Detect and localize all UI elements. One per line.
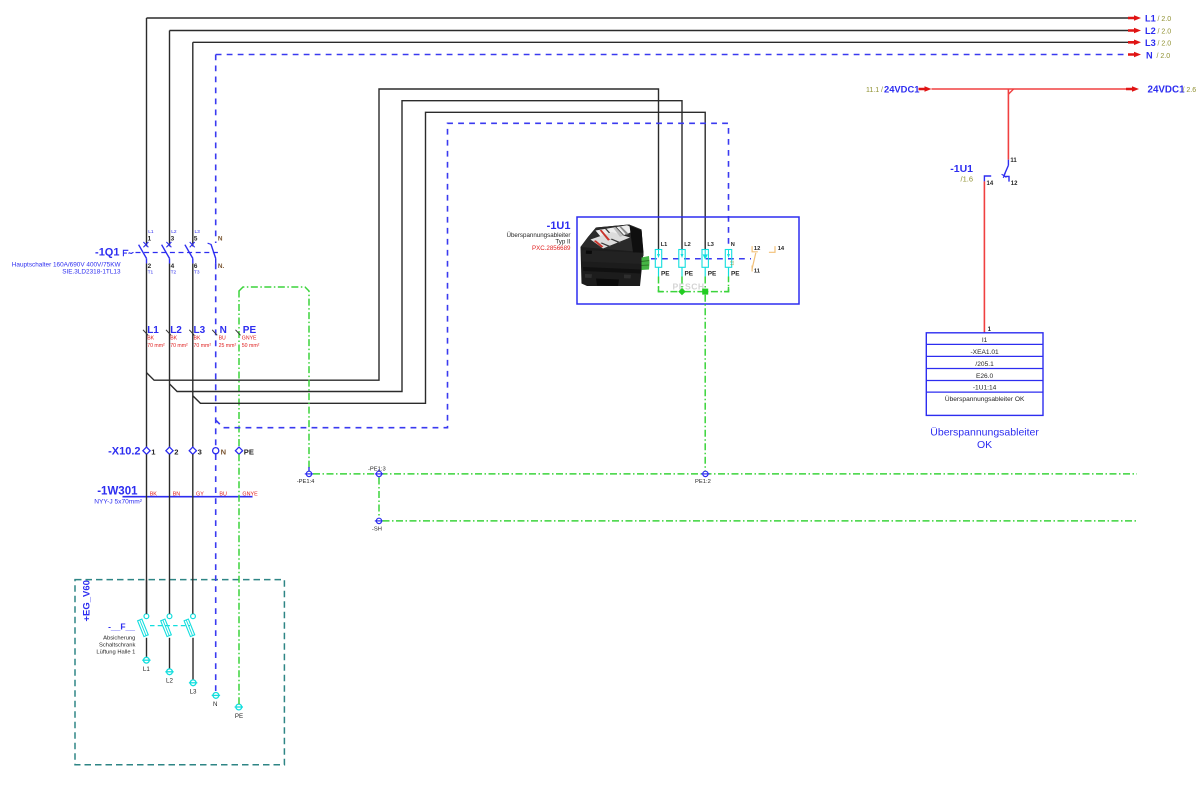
arrow L3 to page 2.0 bbox=[1128, 40, 1141, 46]
wire PE branch to PE1:4 dash-dot bbox=[239, 287, 309, 471]
svg-text:-X10.2: -X10.2 bbox=[108, 446, 140, 458]
svg-text:OK: OK bbox=[977, 439, 992, 451]
enclosure EG_V60 dashed frame bbox=[75, 580, 284, 765]
terminal circle PE bbox=[235, 704, 244, 720]
wire branch L1 to surge protector bbox=[147, 89, 659, 380]
wire N vertical below Q1 to terminal dashed bbox=[215, 263, 217, 447]
wire red down to contact 1U1:11 bbox=[1007, 89, 1009, 160]
wire N vertical upper dashed bbox=[215, 55, 217, 244]
terminal circle N bbox=[212, 693, 220, 709]
svg-text:/ 2.0: / 2.0 bbox=[1157, 53, 1171, 60]
svg-text:24VDC1: 24VDC1 bbox=[884, 83, 919, 94]
svg-text:GNYE: GNYE bbox=[242, 491, 258, 497]
junction chamfer 24VDC1 bbox=[1008, 89, 1013, 94]
svg-text:4: 4 bbox=[171, 263, 175, 270]
fuse F pole 1 bbox=[138, 614, 149, 637]
PE junction square bbox=[702, 289, 708, 295]
svg-text:L3: L3 bbox=[190, 689, 197, 696]
svg-text:BK: BK bbox=[150, 491, 158, 497]
wire red contact 14 down to PLC input bbox=[983, 181, 985, 332]
svg-text:GY: GY bbox=[196, 491, 204, 497]
arrester N bbox=[725, 242, 740, 278]
svg-text:24VDC1: 24VDC1 bbox=[1148, 85, 1186, 96]
svg-text:L1: L1 bbox=[661, 242, 668, 248]
wire L3 fuse to terminal bbox=[192, 638, 194, 680]
svg-text:6: 6 bbox=[194, 263, 198, 270]
wire L1 inside enclosure upper bbox=[146, 580, 148, 614]
earth terminal PE1:4 bbox=[297, 467, 315, 485]
svg-text:PE: PE bbox=[243, 325, 257, 336]
wire PE from surge box down to PE1:2 bbox=[704, 295, 706, 471]
wire L1 top bus horizontal bbox=[147, 17, 1129, 19]
wire PE1:3 to SH dash-dot bbox=[378, 478, 380, 518]
svg-text:BK: BK bbox=[194, 336, 201, 342]
svg-text:PE1:2: PE1:2 bbox=[695, 479, 711, 485]
wire branch L2 to surge protector bbox=[170, 101, 683, 392]
svg-text:T3: T3 bbox=[194, 270, 200, 276]
svg-text:PE: PE bbox=[731, 271, 740, 278]
svg-text:L2: L2 bbox=[171, 229, 177, 235]
wire L3 vertical upper bbox=[192, 42, 194, 246]
arrester L2 bbox=[679, 242, 694, 278]
svg-text:2: 2 bbox=[148, 263, 152, 270]
surge protector product photo bbox=[581, 225, 650, 287]
svg-text:70 mm²: 70 mm² bbox=[147, 343, 165, 349]
fuse F pole 2 bbox=[161, 614, 172, 637]
terminal X10.2:PE bbox=[235, 447, 242, 454]
arrow N to page 2.0 bbox=[1128, 52, 1141, 58]
svg-text:I1: I1 bbox=[982, 337, 988, 344]
main PE bus dash-dot bbox=[313, 473, 1137, 475]
arrester L3 bbox=[702, 242, 717, 278]
svg-text:T1: T1 bbox=[148, 270, 154, 276]
arrow L2 to page 2.0 bbox=[1128, 28, 1141, 34]
svg-text:N: N bbox=[220, 325, 227, 336]
terminal circle L3 bbox=[189, 680, 197, 696]
PE junction diamond bbox=[678, 288, 685, 295]
surge protector 1U1 box bbox=[577, 217, 799, 304]
svg-text:12: 12 bbox=[730, 260, 735, 265]
switch Q1 pole N contact bbox=[208, 243, 216, 263]
switch Q1 pole 1 contact bbox=[139, 242, 149, 263]
svg-text:N: N bbox=[221, 447, 226, 456]
wire L2 vertical below Q1 to terminal bbox=[169, 263, 171, 447]
svg-text:BU: BU bbox=[219, 336, 226, 342]
svg-text:-__F__: -__F__ bbox=[108, 622, 135, 632]
svg-text:E26.0: E26.0 bbox=[976, 373, 994, 380]
switch Q1 pole 2 contact bbox=[162, 242, 172, 263]
blue dashed link through arresters bbox=[651, 258, 751, 260]
svg-text:Lüftung Halle 1: Lüftung Halle 1 bbox=[96, 649, 135, 655]
PE bus corner left bbox=[659, 287, 664, 292]
wire N top bus horizontal dashed bbox=[216, 54, 1125, 56]
wire branch N to surge protector dashed bbox=[216, 123, 729, 427]
svg-text:-1U1: -1U1 bbox=[547, 220, 571, 232]
wire L2 vertical upper bbox=[169, 31, 171, 247]
terminal circle L1 bbox=[142, 657, 150, 673]
svg-text:BN: BN bbox=[173, 491, 181, 497]
svg-text:GNYE: GNYE bbox=[242, 336, 257, 342]
svg-text:PE: PE bbox=[661, 271, 670, 278]
svg-text:-PE1:3: -PE1:3 bbox=[368, 466, 386, 472]
svg-text:PXC.2856689: PXC.2856689 bbox=[532, 245, 571, 252]
wire L3 top bus horizontal bbox=[193, 41, 1128, 43]
svg-text:2: 2 bbox=[174, 447, 178, 456]
svg-text:-1W301: -1W301 bbox=[97, 485, 138, 497]
PE drop L3 bbox=[704, 277, 706, 292]
wire L2 fuse to terminal bbox=[169, 638, 171, 669]
svg-text:11: 11 bbox=[1010, 158, 1017, 164]
wire L2 top bus horizontal bbox=[170, 30, 1129, 32]
svg-text:L2: L2 bbox=[170, 325, 182, 336]
svg-text:/ 2.0: / 2.0 bbox=[1158, 29, 1172, 36]
svg-text:70 mm²: 70 mm² bbox=[194, 343, 212, 349]
svg-text:Absicherung: Absicherung bbox=[103, 635, 135, 641]
wire 24VDC1 horizontal red bbox=[932, 88, 1127, 90]
svg-text:PESCH: PESCH bbox=[673, 282, 705, 292]
wire PE vertical dash-dot bbox=[238, 291, 240, 448]
svg-text:14: 14 bbox=[778, 246, 785, 252]
svg-text:11: 11 bbox=[754, 269, 761, 275]
arrow 24VDC1 to page 2.6 bbox=[1126, 86, 1139, 92]
fuse link dashed cyan bbox=[150, 625, 190, 627]
earth terminal PE1:2 bbox=[695, 471, 711, 485]
earth terminal PE1:3 bbox=[368, 466, 386, 478]
terminal X10.2:1 bbox=[143, 447, 150, 454]
svg-text:3: 3 bbox=[198, 447, 202, 456]
svg-text:L1: L1 bbox=[143, 666, 150, 673]
svg-text:-SH: -SH bbox=[372, 527, 382, 533]
svg-text:PE: PE bbox=[708, 271, 717, 278]
PE bus inside surge box dash-dot bbox=[659, 277, 729, 292]
svg-text:L1: L1 bbox=[1145, 13, 1156, 23]
svg-text:L1: L1 bbox=[147, 325, 159, 336]
svg-text:Überspannungsableiter: Überspannungsableiter bbox=[930, 427, 1039, 439]
second PE bus dash-dot bbox=[383, 520, 1138, 522]
svg-text:14: 14 bbox=[987, 181, 994, 187]
svg-text:N: N bbox=[1146, 50, 1153, 60]
svg-text:50 mm²: 50 mm² bbox=[242, 343, 260, 349]
wire label tick PE bbox=[236, 330, 241, 336]
switch Q1 mechanical link dashed bbox=[136, 252, 222, 254]
svg-text:12: 12 bbox=[754, 246, 760, 252]
svg-text:L2: L2 bbox=[166, 678, 173, 685]
svg-text:PE: PE bbox=[244, 447, 254, 456]
svg-text:/205.1: /205.1 bbox=[975, 361, 994, 368]
svg-text:25 mm²: 25 mm² bbox=[219, 343, 237, 349]
switch Q1 actuator handle bbox=[123, 250, 128, 256]
arrow 24VDC1 from 11.1 bbox=[919, 86, 932, 92]
svg-text:/1.6: /1.6 bbox=[960, 174, 973, 183]
svg-text:-XEA1.01: -XEA1.01 bbox=[970, 349, 999, 356]
svg-text:Schaltschrank: Schaltschrank bbox=[99, 642, 136, 648]
svg-text:3: 3 bbox=[171, 235, 175, 242]
svg-text:Überspannungsableiter OK: Überspannungsableiter OK bbox=[945, 395, 1025, 403]
wire label tick L1 bbox=[143, 330, 148, 336]
svg-text:-PE1:4: -PE1:4 bbox=[297, 479, 315, 485]
terminal X10.2:3 bbox=[189, 447, 196, 454]
svg-text:-1U1: -1U1 bbox=[950, 163, 973, 175]
contact 1U1 changeover symbol bbox=[1007, 160, 1009, 166]
svg-text:L3: L3 bbox=[195, 229, 201, 235]
svg-text:N.: N. bbox=[218, 263, 225, 270]
svg-text:/ 2.0: / 2.0 bbox=[1158, 41, 1172, 48]
wire L3 vertical below Q1 to terminal bbox=[192, 263, 194, 447]
svg-text:BK: BK bbox=[170, 336, 177, 342]
svg-text:5: 5 bbox=[194, 235, 198, 242]
terminal X10.2:N bbox=[213, 448, 219, 454]
wire L1 terminal to enclosure bbox=[146, 454, 148, 614]
switch Q1 pole 3 contact bbox=[185, 242, 195, 263]
svg-text:/ 2.6: / 2.6 bbox=[1183, 87, 1197, 94]
terminal circle L2 bbox=[165, 669, 173, 685]
arrester L1 bbox=[655, 242, 670, 278]
svg-text:L2: L2 bbox=[1145, 26, 1156, 36]
PE drop L2 bbox=[681, 277, 683, 292]
wire label tick L3 bbox=[189, 330, 194, 336]
svg-text:70 mm²: 70 mm² bbox=[170, 343, 188, 349]
PLC input box bbox=[926, 333, 1043, 416]
PE bus corner right bbox=[724, 287, 729, 292]
arrow L1 to page 2.0 bbox=[1128, 15, 1141, 21]
svg-text:NYY-J 5x70mm²: NYY-J 5x70mm² bbox=[94, 499, 143, 506]
wire L3 terminal to enclosure bbox=[192, 454, 194, 614]
svg-text:N: N bbox=[218, 235, 223, 242]
svg-text:N: N bbox=[213, 701, 217, 708]
svg-text:BK: BK bbox=[147, 336, 154, 342]
cable 1W301 line bbox=[123, 496, 253, 498]
svg-text:N: N bbox=[731, 242, 735, 248]
svg-text:12: 12 bbox=[1011, 181, 1018, 187]
wire label tick L2 bbox=[166, 330, 171, 336]
terminal X10.2:2 bbox=[166, 447, 173, 454]
svg-text:L3: L3 bbox=[194, 325, 206, 336]
earth terminal SH bbox=[372, 518, 383, 533]
svg-text:BU: BU bbox=[219, 491, 227, 497]
wire N terminal to enclosure dashed bbox=[215, 454, 217, 692]
svg-text:11.1 /: 11.1 / bbox=[866, 87, 883, 94]
svg-text:SIE.3LD2318-1TL13: SIE.3LD2318-1TL13 bbox=[62, 269, 121, 276]
svg-text:L2: L2 bbox=[684, 242, 691, 248]
wire L1 fuse to terminal bbox=[146, 638, 148, 658]
wire PE terminal to enclosure dash-dot bbox=[238, 454, 240, 704]
signal contact in surge box (orange) bbox=[752, 246, 785, 275]
svg-text:L3: L3 bbox=[707, 242, 714, 248]
wire label tick N bbox=[212, 330, 217, 336]
svg-text:1: 1 bbox=[148, 235, 152, 242]
wire L2 terminal to enclosure bbox=[169, 454, 171, 614]
svg-text:+EG_V60: +EG_V60 bbox=[82, 580, 93, 621]
svg-text:/ 2.0: / 2.0 bbox=[1158, 16, 1172, 23]
svg-text:T2: T2 bbox=[171, 270, 177, 276]
wire branch L3 to surge protector bbox=[193, 112, 705, 403]
svg-text:PE: PE bbox=[235, 713, 243, 720]
svg-text:PE: PE bbox=[685, 271, 694, 278]
wire L1 vertical upper bbox=[146, 18, 148, 246]
svg-text:-1Q1: -1Q1 bbox=[95, 246, 119, 258]
fuse F pole 3 bbox=[184, 614, 195, 637]
svg-text:-1U1:14: -1U1:14 bbox=[973, 385, 997, 392]
svg-text:L3: L3 bbox=[1145, 38, 1156, 48]
svg-text:L1: L1 bbox=[148, 229, 154, 235]
svg-text:Hauptschalter 160A/690V 400V/7: Hauptschalter 160A/690V 400V/75KW bbox=[12, 262, 122, 269]
wire L1 vertical below Q1 to terminal bbox=[146, 263, 148, 447]
